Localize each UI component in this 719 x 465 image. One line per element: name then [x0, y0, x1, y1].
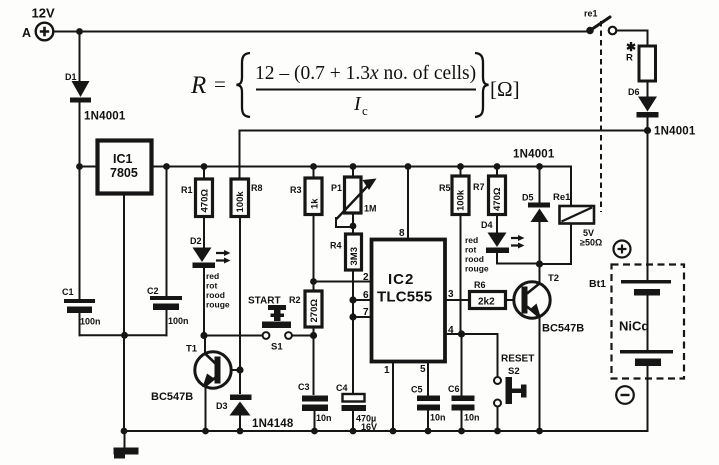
resistor R2 270 ohm	[289, 291, 322, 327]
node junction T2 collector D4 relay	[536, 260, 543, 267]
relay coil Re1	[553, 192, 602, 248]
node A 12V supply terminal	[22, 6, 55, 41]
svg-text:16V: 16V	[361, 422, 377, 432]
wire ground link C1-C2	[80, 334, 167, 336]
node junction ground rail pin1	[390, 428, 397, 435]
svg-text:D1: D1	[65, 72, 77, 82]
svg-text:10n: 10n	[316, 413, 332, 423]
svg-text:red: red	[206, 271, 219, 281]
svg-text:10n: 10n	[430, 413, 446, 423]
svg-text:[Ω]: [Ω]	[490, 77, 520, 101]
node junction T1 base	[236, 366, 243, 373]
svg-text:1N4001: 1N4001	[654, 126, 696, 138]
node junction pin4 R5 C6	[458, 330, 465, 337]
node battery minus terminal	[616, 386, 634, 404]
svg-text:D2: D2	[190, 236, 202, 246]
node junction pin 7	[349, 313, 356, 320]
wire R1 to D2	[203, 217, 205, 248]
svg-text:rot: rot	[465, 245, 477, 255]
wire IC1 input stub	[80, 166, 97, 168]
svg-text:1N4001: 1N4001	[513, 149, 555, 161]
wire R3 to R2 node pin2	[313, 214, 315, 291]
battery cell 1	[621, 280, 671, 296]
wire dashed relay actuator link	[600, 21, 602, 212]
svg-text:rood: rood	[206, 290, 225, 300]
wire C4 to ground rail	[352, 411, 354, 431]
svg-text:C6: C6	[448, 384, 460, 394]
wire relay coil bottom bend	[540, 223, 572, 264]
node junction P1 top	[350, 163, 357, 170]
wire R2 bottom to C3	[313, 327, 315, 394]
wire R7 top lead	[496, 167, 498, 177]
wire T2 collector	[539, 264, 541, 283]
svg-text:rouge: rouge	[465, 264, 489, 274]
wire A-node down to D1	[79, 32, 81, 82]
resistor R1 470 ohm	[181, 179, 213, 217]
wire switch to R star	[617, 31, 648, 47]
node junction at A rail	[76, 28, 83, 35]
svg-text:6: 6	[363, 290, 369, 301]
wire pin 6	[353, 299, 371, 301]
svg-text:3: 3	[448, 289, 454, 300]
wire battery sense bus	[240, 131, 649, 180]
svg-text:BC547B: BC547B	[151, 391, 193, 403]
transistor T1 BC547B	[151, 344, 231, 404]
wire C3 to ground rail	[314, 410, 316, 431]
node junction T1 collector / S1	[200, 332, 207, 339]
node junction ground rail T1	[202, 428, 209, 435]
svg-text:R: R	[190, 72, 206, 99]
svg-text:100n: 100n	[168, 316, 189, 326]
diode D6 1N4001	[628, 87, 696, 138]
node battery plus terminal	[614, 241, 631, 258]
wire C6 branch from pin4 node	[461, 334, 463, 395]
node junction R2 top pin2	[310, 278, 317, 285]
wire battery minus to ground rail	[647, 366, 649, 431]
wire T1 emitter to ground	[205, 388, 207, 431]
svg-text:R: R	[626, 53, 633, 64]
svg-text:7: 7	[363, 307, 369, 318]
node junction pin 8 rail	[405, 163, 412, 170]
wire S1 left	[204, 335, 263, 337]
wire T1 base	[222, 369, 241, 371]
svg-text:IC1: IC1	[113, 152, 133, 166]
wire pin 8 to 5V rail	[407, 167, 409, 239]
svg-text:rood: rood	[465, 254, 484, 264]
svg-text:I: I	[353, 93, 362, 115]
node junction ground link IC1	[121, 332, 128, 339]
resistor R7 470 ohm	[473, 176, 506, 215]
svg-text:R7: R7	[473, 182, 485, 192]
node junction D1-IC1	[76, 163, 83, 170]
node junction ground rail S2	[494, 428, 501, 435]
wire pin 3 stub	[446, 299, 469, 301]
svg-text:C5: C5	[411, 385, 423, 395]
wire R1 top lead	[203, 167, 205, 180]
svg-text:IC2: IC2	[388, 271, 414, 288]
wire D5 anode to collector node	[539, 222, 541, 264]
svg-text:D4: D4	[481, 220, 493, 230]
wire P1 wiper tie	[336, 218, 353, 227]
svg-text:A: A	[22, 26, 31, 40]
svg-text:470Ω: 470Ω	[200, 189, 211, 213]
diode D5 1N4001 flyback	[522, 193, 550, 223]
wire ground rail	[125, 430, 648, 432]
wire pin 2	[314, 281, 372, 283]
resistor R3 1k	[290, 178, 322, 215]
capacitor C6 10n	[448, 384, 480, 423]
wire S2 to ground rail	[497, 407, 499, 431]
svg-text:5: 5	[420, 364, 426, 375]
capacitor C4 470u electrolytic	[336, 383, 377, 432]
svg-text:D3: D3	[216, 401, 228, 411]
svg-text:12 – (0.7 + 1.3x no. of cells): 12 – (0.7 + 1.3x no. of cells)	[255, 63, 476, 84]
svg-text:5V: 5V	[583, 228, 594, 238]
svg-text:270Ω: 270Ω	[309, 299, 320, 323]
node junction pin 6	[349, 296, 356, 303]
node junction D5 top	[536, 163, 543, 170]
svg-text:2k2: 2k2	[478, 297, 495, 308]
wire D5 top lead	[539, 167, 541, 204]
resistor R star external	[626, 40, 656, 81]
wire P1 top lead	[352, 167, 354, 178]
capacitor C2 100n	[147, 286, 189, 326]
wire C2 down to ground link	[166, 311, 168, 335]
svg-text:2: 2	[363, 272, 369, 283]
IC IC1 7805 regulator	[98, 141, 152, 194]
wire T2 emitter to ground	[539, 317, 541, 431]
svg-text:470Ω: 470Ω	[492, 187, 503, 211]
svg-text:8: 8	[399, 228, 405, 239]
wire S1 right	[292, 335, 314, 337]
svg-text:c: c	[362, 103, 368, 118]
formula resistor equation	[190, 53, 520, 118]
svg-text:C3: C3	[298, 382, 310, 392]
IC IC2 TLC555 timer	[372, 240, 446, 362]
diode D1 1N4001	[65, 72, 126, 123]
wire R5 to pin4 node	[460, 215, 462, 334]
svg-text:R3: R3	[290, 185, 302, 195]
svg-text:T1: T1	[186, 344, 198, 355]
svg-text:C2: C2	[147, 286, 159, 296]
switch re1 relay contact	[584, 9, 616, 35]
capacitor C5 10n	[411, 385, 446, 423]
wire top 12V rail	[53, 31, 588, 33]
wire IC1 input node down to C1	[79, 166, 81, 299]
svg-text:P1: P1	[331, 183, 342, 193]
battery Bt1 NiCd dashed outline	[589, 265, 684, 379]
svg-text:1N4001: 1N4001	[84, 111, 126, 123]
svg-text:NiCd: NiCd	[619, 319, 649, 334]
wire R star to D6	[647, 81, 649, 96]
svg-text:T2: T2	[548, 273, 559, 284]
wire C6 to ground rail	[461, 410, 463, 431]
wire C2 branch	[166, 167, 168, 297]
svg-text:100n: 100n	[80, 317, 101, 327]
svg-text:R2: R2	[289, 295, 301, 305]
wire R3 top lead	[313, 167, 315, 179]
node junction R3 top	[310, 163, 317, 170]
wire 5V output rail	[152, 166, 571, 168]
svg-text:RESET: RESET	[501, 354, 534, 365]
node junction ground rail IC1	[121, 428, 128, 435]
svg-text:1N4148: 1N4148	[252, 418, 294, 430]
wire R7 to D4	[496, 215, 498, 232]
LED D4 red	[465, 220, 525, 274]
svg-text:100k: 100k	[235, 191, 246, 213]
resistor R8 100k	[231, 179, 263, 217]
wire P1 to R4	[352, 213, 354, 234]
wire battery mid link	[647, 295, 649, 350]
svg-text:S1: S1	[271, 342, 283, 353]
svg-text:R5: R5	[439, 183, 451, 193]
wire R6 to T2 base	[506, 299, 515, 301]
resistor R5 100k	[439, 176, 469, 215]
svg-text:4: 4	[448, 325, 454, 336]
diode D3 1N4148	[216, 395, 294, 431]
svg-text:rouge: rouge	[206, 300, 230, 310]
node junction R7 top	[494, 163, 501, 170]
node junction ground rail C5	[425, 428, 432, 435]
resistor R4 3M3	[330, 234, 362, 270]
svg-text:TLC555: TLC555	[377, 289, 432, 306]
node junction R1 top	[201, 163, 208, 170]
capacitor C1 100n	[62, 287, 101, 327]
ground	[114, 431, 139, 459]
wire pin 1 to ground	[392, 363, 394, 431]
wire D6 to sense node	[647, 117, 649, 131]
wire R4 bottom to pins 6,7 and C4	[352, 270, 354, 394]
node junction R5 top	[457, 163, 464, 170]
potentiometer P1 1M	[331, 177, 377, 219]
battery cell 2	[620, 350, 673, 366]
wire pin 4 reset line	[446, 334, 498, 376]
wire C1 down to ground link	[79, 312, 81, 335]
svg-text:R6: R6	[474, 280, 486, 290]
svg-text:START: START	[248, 296, 281, 307]
svg-text:R4: R4	[330, 241, 342, 251]
node junction ground rail D3	[237, 428, 244, 435]
svg-text:1k: 1k	[310, 198, 321, 209]
switch S1 START pushbutton	[248, 296, 292, 353]
wire D1 to IC1 input node	[79, 102, 81, 166]
svg-text:D5: D5	[522, 193, 534, 203]
svg-text:S2: S2	[508, 366, 520, 377]
wire D4 cathode bend to T2 collector node	[497, 254, 540, 264]
svg-text:3M3: 3M3	[349, 247, 360, 265]
node junction ground rail C4	[350, 428, 357, 435]
node junction C2 top	[163, 163, 170, 170]
svg-text:Re1: Re1	[553, 192, 571, 203]
svg-text:BC547B: BC547B	[542, 323, 584, 335]
svg-text:re1: re1	[584, 9, 598, 19]
node junction ground rail T2	[536, 428, 543, 435]
svg-text:7805: 7805	[110, 166, 138, 180]
switch S2 RESET pushbutton	[494, 354, 534, 407]
wire R5 top lead	[460, 167, 462, 177]
wire IC1 ground lead	[123, 196, 125, 431]
svg-text:12V: 12V	[32, 6, 55, 21]
wire pin 5 to C5	[427, 363, 429, 395]
svg-text:10n: 10n	[464, 413, 480, 423]
wire R8 bottom to T1 base node and D3	[239, 217, 241, 394]
svg-text:C1: C1	[62, 287, 74, 297]
node junction R2 bottom	[310, 332, 317, 339]
svg-text:=: =	[214, 72, 226, 96]
svg-text:1M: 1M	[364, 204, 377, 214]
wire D2 to S1 node	[203, 268, 205, 336]
node junction sense bus battery	[644, 127, 651, 134]
wire pin 7	[353, 316, 371, 318]
node junction P1 wiper R4	[350, 223, 357, 230]
node junction ground rail C6	[458, 428, 465, 435]
svg-text:rot: rot	[206, 281, 218, 291]
wire D3 to ground rail	[239, 415, 241, 431]
transistor T2 BC547B	[514, 273, 584, 335]
wire sense node to battery plus	[647, 131, 649, 281]
svg-text:red: red	[465, 235, 478, 245]
svg-text:≥50Ω: ≥50Ω	[580, 238, 602, 248]
resistor R6 2k2	[470, 280, 506, 309]
wire relay coil top lead	[570, 167, 572, 207]
svg-text:R8: R8	[251, 183, 263, 193]
wire C5 to ground rail	[427, 410, 429, 431]
svg-text:Bt1: Bt1	[589, 278, 606, 290]
svg-text:1: 1	[384, 365, 390, 376]
svg-text:R1: R1	[181, 185, 193, 195]
wire S1 node to T1 collector	[204, 336, 206, 354]
LED D2 red	[190, 236, 231, 310]
svg-text:D6: D6	[628, 87, 640, 97]
node junction ground rail C3	[311, 428, 318, 435]
svg-text:C4: C4	[336, 383, 348, 393]
svg-text:100k: 100k	[456, 189, 467, 211]
capacitor C3 10n	[298, 382, 332, 423]
